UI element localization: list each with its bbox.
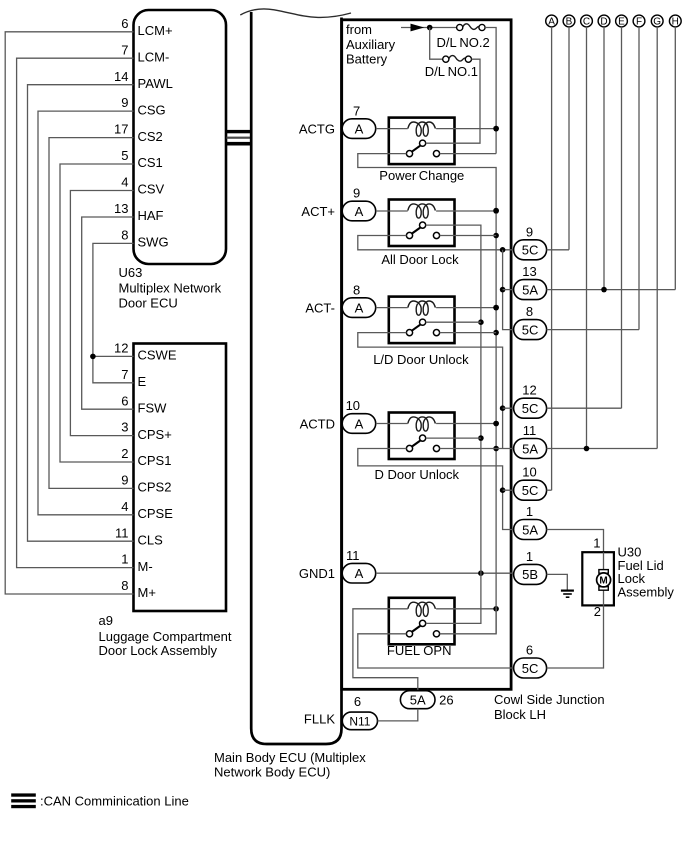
wire FUEL OPN coil output: [436, 608, 496, 610]
connector oval A pin 11: [342, 548, 376, 583]
svg-text:14: 14: [114, 69, 128, 84]
node circled letter H: [669, 15, 681, 28]
wire battery feed: [401, 27, 457, 29]
wire ground bus from All Door Lock NO contact: [426, 225, 481, 623]
wire All Door Lock pivot to 5C pin 9: [358, 236, 514, 250]
wire 5C pin 10 to A: [547, 489, 552, 491]
a9 pin 1 M-: [121, 552, 152, 574]
svg-text:5C: 5C: [522, 661, 539, 676]
svg-text:A: A: [355, 416, 364, 431]
svg-text:4: 4: [121, 499, 128, 514]
svg-text:FLLK: FLLK: [304, 712, 335, 727]
svg-text:E: E: [618, 17, 625, 28]
CAN communication line bars between U63 and Main Body ECU: [227, 130, 251, 146]
svg-text:11: 11: [523, 423, 537, 438]
node ground bus at L/D NO: [478, 319, 484, 325]
node coil joins bus at ACTG row: [493, 126, 499, 132]
svg-text:U63: U63: [119, 265, 143, 280]
relay L/D Door Unlock: [389, 297, 455, 344]
node supply bus to All Door Lock coil: [493, 208, 499, 214]
svg-text:6: 6: [121, 16, 128, 31]
svg-text:B: B: [566, 17, 573, 28]
svg-text:1: 1: [526, 549, 533, 564]
svg-text:GND1: GND1: [299, 566, 335, 581]
node FUEL OPN coil/bus junction: [493, 606, 499, 612]
wire LCM- to M-: [17, 58, 134, 567]
connector oval 5A pin 1: [514, 504, 547, 540]
svg-text:5C: 5C: [522, 483, 539, 498]
wire drop from letter B: [568, 27, 570, 250]
svg-text:13: 13: [522, 264, 536, 279]
wire GND1 A oval to 5B oval: [376, 572, 514, 574]
wire lock bus to 5A pin 13 and 5C pin 8: [503, 250, 514, 330]
wire fuse D/L NO.2 output to Power Change coil and contact: [485, 28, 496, 154]
arrow battery feed direction: [411, 24, 425, 32]
svg-text:ACTD: ACTD: [300, 417, 335, 432]
svg-text:6: 6: [121, 393, 128, 408]
svg-text:Multiplex Network: Multiplex Network: [119, 281, 222, 296]
node circled letter C: [581, 15, 593, 28]
svg-text:A: A: [355, 300, 364, 315]
label from Auxiliary Battery: [346, 22, 396, 67]
U63 pin 13 HAF: [114, 201, 164, 223]
svg-text:5A: 5A: [410, 693, 426, 708]
wire relay coil output ACTG row: [436, 128, 496, 130]
label Main Body ECU (Multiplex Network Body ECU): [214, 750, 366, 780]
svg-text:CSV: CSV: [138, 182, 165, 197]
fuse D/L NO.2: [457, 24, 486, 31]
ECU box U63: [134, 10, 227, 264]
svg-text:5C: 5C: [522, 243, 539, 258]
wire fuse D/L NO.1 output to Power Change NO contact: [426, 59, 480, 143]
svg-text:H: H: [672, 17, 679, 28]
wire 5A pin 13 to H: [547, 289, 676, 291]
wire relay coil output ACT+ row: [436, 210, 496, 212]
svg-text:1: 1: [593, 536, 600, 551]
node fuse output joins coil: [493, 126, 499, 132]
wire ACTG A oval to relay coil: [376, 128, 408, 130]
fuse D/L NO.1: [443, 56, 472, 63]
junction block Cowl Side Junction Block LH: [342, 20, 511, 690]
svg-text:from: from: [346, 22, 372, 37]
svg-text:6: 6: [526, 643, 533, 658]
svg-text:M: M: [599, 576, 607, 587]
relay Power Change: [389, 118, 455, 165]
svg-text:CPS2: CPS2: [138, 480, 172, 495]
a9 pin 2 CPS1: [121, 446, 171, 468]
wire D Door Unlock pivot to 5C pin 10 and 5A pin 1: [358, 449, 514, 530]
svg-text:CPS1: CPS1: [138, 453, 172, 468]
a9 pin 3 CPS+: [121, 420, 172, 442]
svg-text:Door ECU: Door ECU: [119, 296, 178, 311]
svg-text:5B: 5B: [522, 567, 538, 582]
svg-text:CPSE: CPSE: [138, 506, 174, 521]
svg-text:D: D: [600, 17, 607, 28]
a9 pin 11 CLS: [115, 525, 163, 547]
wire relay coil output ACTD row: [436, 423, 496, 425]
wire drop from letter F: [638, 27, 640, 330]
svg-text:10: 10: [346, 398, 360, 413]
node ground bus joins GND1: [478, 570, 484, 576]
svg-text:CS2: CS2: [138, 129, 163, 144]
label Cowl Side Junction Block LH: [494, 692, 605, 722]
svg-text:Battery: Battery: [346, 52, 388, 67]
U63 pin 6 LCM+: [121, 16, 172, 38]
node supply bus to L/D coil: [493, 305, 499, 311]
svg-text:5C: 5C: [522, 401, 539, 416]
svg-text:9: 9: [121, 95, 128, 110]
node circled letter E: [616, 15, 628, 28]
svg-text:4: 4: [121, 175, 128, 190]
svg-text:M+: M+: [138, 585, 156, 600]
U63 pin 9 CSG: [121, 95, 165, 117]
U63 pin 8 SWG: [121, 228, 168, 250]
node junction to lock bus: [500, 247, 506, 253]
svg-text:12: 12: [114, 341, 128, 356]
a9 pin 8 M+: [121, 578, 156, 600]
U63 pin 4 CSV: [121, 175, 164, 197]
connector oval 5A pin 26: [400, 691, 453, 709]
wire CSG to CPSE: [38, 111, 134, 515]
wire FUEL OPN coil to FLLK via 5A pin 26: [353, 609, 418, 691]
svg-text:3: 3: [121, 420, 128, 435]
wire CSV to CPS+: [70, 191, 133, 436]
torn-edge wave across ECU top: [240, 9, 351, 17]
wire ACTD A oval to relay coil: [376, 423, 408, 425]
svg-text:Network Body ECU): Network Body ECU): [214, 765, 330, 780]
node circled letter F: [633, 15, 645, 28]
ECU box Main Body ECU (Multiplex Network Body ECU): [251, 12, 341, 744]
a9 pin 4 CPSE: [121, 499, 173, 521]
svg-text:9: 9: [121, 473, 128, 488]
node junction at 5C pin 10: [500, 487, 506, 493]
wire 5A pin 26 to N11: [378, 709, 418, 721]
svg-text:CSWE: CSWE: [138, 348, 177, 363]
svg-text:2: 2: [594, 604, 601, 619]
connector oval 5C pin 6: [514, 643, 547, 679]
connector oval 5C pin 12: [514, 383, 547, 419]
svg-text:11: 11: [115, 525, 129, 540]
svg-text:E: E: [138, 374, 147, 389]
connector oval A pin 8: [342, 282, 376, 317]
wire stub to 5C pin 12: [503, 407, 514, 409]
svg-text:ACT+: ACT+: [301, 204, 335, 219]
svg-text:10: 10: [522, 465, 536, 480]
svg-text:7: 7: [121, 42, 128, 57]
svg-text:11: 11: [346, 548, 360, 563]
connector oval 5B pin 1: [514, 549, 547, 585]
svg-text:13: 13: [114, 201, 128, 216]
motor M symbol: [597, 570, 611, 591]
relay FUEL OPN: [389, 598, 455, 645]
svg-text:PAWL: PAWL: [138, 76, 173, 91]
connector oval 5C pin 8: [514, 304, 547, 340]
svg-text:A: A: [355, 204, 364, 219]
svg-text:CS1: CS1: [138, 155, 163, 170]
svg-text:CSG: CSG: [138, 102, 166, 117]
legend CAN communication line symbol: [11, 793, 36, 808]
svg-text:Luggage Compartment: Luggage Compartment: [99, 629, 232, 644]
node C taps 5A pin 11: [584, 446, 590, 452]
wire ACT+ A oval to relay coil: [376, 210, 408, 212]
node supply bus to D coil: [493, 421, 499, 427]
svg-text:N11: N11: [349, 715, 370, 729]
svg-text:C: C: [583, 17, 590, 28]
U63 pin 17 CS2: [114, 122, 163, 144]
connector oval A pin 10: [342, 398, 376, 433]
svg-text:G: G: [653, 17, 661, 28]
svg-text:FSW: FSW: [138, 400, 168, 415]
svg-text:12: 12: [522, 383, 536, 398]
svg-text:D/L NO.2: D/L NO.2: [437, 35, 490, 50]
svg-text:5: 5: [121, 148, 128, 163]
wire fuse feed drop to D/L NO.1: [430, 28, 443, 60]
svg-text::CAN Comminication Line: :CAN Comminication Line: [40, 793, 189, 808]
wire drop from letter C: [586, 27, 588, 449]
node circled letter A: [546, 15, 558, 28]
U63 pin 5 CS1: [121, 148, 163, 170]
wire relay coil output ACT- row: [436, 307, 496, 309]
relay All Door Lock: [389, 200, 455, 247]
svg-text:8: 8: [121, 578, 128, 593]
svg-text:LCM+: LCM+: [138, 23, 173, 38]
component box U30 Fuel Lid Lock Assembly: [582, 552, 614, 605]
node coil joins bus at ACT- row: [493, 305, 499, 311]
label U63 Multiplex Network Door ECU: [119, 265, 222, 311]
wire U30 pin 2 to 5C pin 6: [547, 605, 604, 668]
wire SWG to CSWE: [93, 243, 134, 356]
svg-text:Auxiliary: Auxiliary: [346, 37, 396, 52]
node supply bus to All Door Lock fixed: [493, 233, 499, 239]
wire ACT- A oval to relay coil: [376, 307, 408, 309]
svg-text:CPS+: CPS+: [138, 427, 172, 442]
wire drop from letter G: [656, 27, 658, 449]
connector oval 5C pin 9: [514, 224, 547, 259]
wire 5C pin 8 to F: [547, 329, 639, 331]
svg-text:Door Lock Assembly: Door Lock Assembly: [99, 643, 218, 658]
connector oval 5A pin 13: [514, 264, 547, 300]
wire LCM+ to M+: [5, 32, 133, 594]
wire D Door Unlock fixed contact to 5A pin 11: [440, 448, 514, 450]
svg-text:D Door Unlock: D Door Unlock: [375, 467, 460, 482]
svg-text:7: 7: [353, 103, 360, 118]
svg-text:1: 1: [121, 552, 128, 567]
wire FUEL OPN fixed contact: [440, 609, 497, 634]
svg-text:LCM-: LCM-: [138, 49, 170, 64]
svg-text:D/L NO.1: D/L NO.1: [425, 64, 478, 79]
svg-text:5A: 5A: [522, 522, 538, 537]
node coil joins bus at ACTD row: [493, 421, 499, 427]
node junction CSWE/E/SWG: [90, 354, 96, 360]
connector oval A pin 7: [342, 103, 376, 138]
node circled letter G: [651, 15, 663, 28]
svg-text:5C: 5C: [522, 322, 539, 337]
svg-text:9: 9: [526, 224, 533, 239]
wire Power Change pivot supply bus: [358, 154, 496, 634]
node coil joins bus at ACT+ row: [493, 208, 499, 214]
svg-text:A: A: [548, 17, 555, 28]
connector oval 5A pin 11: [514, 423, 547, 459]
svg-text:2: 2: [121, 446, 128, 461]
svg-text:Cowl Side Junction: Cowl Side Junction: [494, 692, 605, 707]
node circled letter B: [563, 15, 575, 28]
wire Power Change fixed contact to fuse vertical: [440, 153, 497, 155]
ground symbol: [561, 591, 574, 598]
wire drop from letter H: [674, 27, 676, 290]
connector oval 5C pin 10: [514, 465, 547, 501]
svg-text:CLS: CLS: [138, 532, 164, 547]
svg-text:Assembly: Assembly: [618, 585, 675, 600]
svg-text:7: 7: [121, 367, 128, 382]
svg-text:All Door Lock: All Door Lock: [381, 252, 459, 267]
svg-text:5A: 5A: [522, 282, 538, 297]
svg-text:8: 8: [526, 304, 533, 319]
wire 5A pin 11 to G: [547, 448, 658, 450]
node circled letter D: [598, 15, 610, 28]
svg-text:L/D Door Unlock: L/D Door Unlock: [373, 352, 469, 367]
svg-text:M-: M-: [138, 559, 153, 574]
wire stub to 5C pin 10: [503, 489, 514, 491]
wire 5C pin 12 to E: [547, 407, 622, 409]
svg-text:A: A: [355, 121, 364, 136]
svg-text:Block LH: Block LH: [494, 707, 546, 722]
node supply bus to D fixed: [493, 446, 499, 452]
wire L/D Door Unlock fixed contact: [440, 332, 497, 334]
wire CS1 to CPS1: [60, 164, 134, 462]
a9 pin 6 FSW: [121, 393, 167, 415]
svg-text:FUEL OPN: FUEL OPN: [387, 643, 452, 658]
wire HAF to FSW: [82, 217, 134, 409]
relay D Door Unlock: [389, 413, 455, 460]
svg-text:8: 8: [121, 228, 128, 243]
svg-text:A: A: [355, 566, 364, 581]
svg-text:5A: 5A: [522, 441, 538, 456]
node lock bus at 5A 13: [500, 287, 506, 293]
wire CPS2 to CS2: [49, 138, 134, 489]
U63 pin 14 PAWL: [114, 69, 173, 91]
a9 pin 7 E: [121, 367, 146, 389]
node ground bus at D NO: [478, 435, 484, 441]
node junction at 5C pin 12 row: [500, 405, 506, 411]
label a9 Luggage Compartment Door Lock Assembly: [99, 613, 232, 658]
label U30 Fuel Lid Lock Assembly: [618, 545, 675, 600]
a9 pin 12 CSWE: [114, 341, 177, 363]
wire D Door Unlock NO contact: [426, 437, 481, 439]
U63 pin 7 LCM-: [121, 42, 169, 64]
node supply bus to L/D fixed: [493, 330, 499, 336]
wire drop from letter D: [603, 27, 605, 290]
svg-text:Main Body ECU (Multiplex: Main Body ECU (Multiplex: [214, 750, 366, 765]
svg-text:6: 6: [354, 694, 361, 709]
svg-text:8: 8: [353, 282, 360, 297]
node D taps 5A pin 13: [601, 287, 607, 293]
wire drop from letter A: [551, 27, 553, 490]
connector oval A pin 9: [342, 186, 376, 221]
wire FUEL OPN pivot to 5C pin 6: [358, 634, 514, 668]
wire stub to 5A pin 13: [503, 289, 514, 291]
svg-text:ACT-: ACT-: [305, 301, 335, 316]
svg-text:Power Change: Power Change: [379, 168, 464, 183]
svg-text:26: 26: [439, 693, 453, 708]
svg-text:1: 1: [526, 504, 533, 519]
wire E to CSWE junction: [93, 356, 134, 382]
wire L/D Door Unlock NO contact: [426, 321, 481, 323]
svg-text:HAF: HAF: [138, 208, 164, 223]
svg-text:a9: a9: [99, 613, 113, 628]
wire 5A pin 1 to U30 pin 1: [547, 530, 604, 553]
wire drop from letter E: [621, 27, 623, 408]
wire All Door Lock fixed contact: [440, 235, 497, 237]
wire through U30: [603, 552, 605, 605]
a9 pin 9 CPS2: [121, 473, 171, 495]
svg-text:9: 9: [353, 186, 360, 201]
svg-text:SWG: SWG: [138, 235, 169, 250]
wire 5B pin 1 to ground: [547, 574, 568, 589]
lock assembly box a9: [134, 344, 227, 612]
wire 5C pin 9 to B: [547, 249, 569, 251]
svg-text:F: F: [636, 17, 642, 28]
svg-text:ACTG: ACTG: [299, 122, 335, 137]
node battery feed junction: [427, 25, 433, 31]
svg-text:17: 17: [114, 122, 128, 137]
connector oval N11 pin 6 (FLLK): [342, 694, 377, 730]
wire PAWL to CLS: [28, 85, 134, 542]
wire L/D Door Unlock pivot to 5C pin 12: [358, 333, 503, 449]
